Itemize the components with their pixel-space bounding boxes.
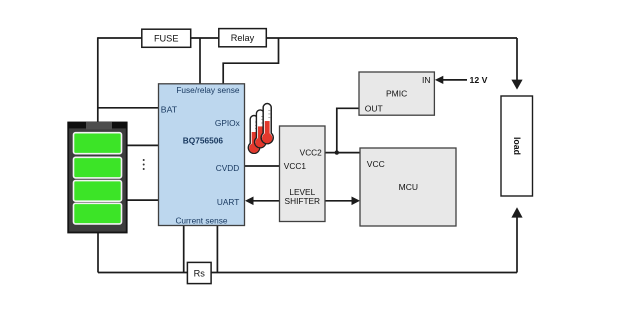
svg-text:VCC: VCC xyxy=(367,159,385,169)
svg-text:12 V: 12 V xyxy=(470,75,488,85)
svg-text:BAT: BAT xyxy=(161,104,178,114)
svg-text:load: load xyxy=(512,137,522,155)
svg-text:OUT: OUT xyxy=(365,103,383,113)
svg-text:VCC2: VCC2 xyxy=(300,147,323,157)
svg-text:IN: IN xyxy=(422,75,431,85)
svg-text:CVDD: CVDD xyxy=(216,163,240,173)
svg-text:SHIFTER: SHIFTER xyxy=(285,196,321,206)
svg-text:VCC1: VCC1 xyxy=(284,161,307,171)
svg-text:BQ756506: BQ756506 xyxy=(183,136,224,146)
svg-text:Fuse/relay sense: Fuse/relay sense xyxy=(176,85,240,95)
svg-text:Current sense: Current sense xyxy=(175,216,227,226)
svg-text:FUSE: FUSE xyxy=(154,34,179,44)
svg-text:UART: UART xyxy=(217,197,239,207)
svg-text:PMIC: PMIC xyxy=(386,89,407,99)
svg-text:Relay: Relay xyxy=(231,33,255,43)
svg-text:MCU: MCU xyxy=(399,182,418,192)
svg-text:Rs: Rs xyxy=(194,268,206,278)
svg-text:GPIOx: GPIOx xyxy=(215,118,241,128)
